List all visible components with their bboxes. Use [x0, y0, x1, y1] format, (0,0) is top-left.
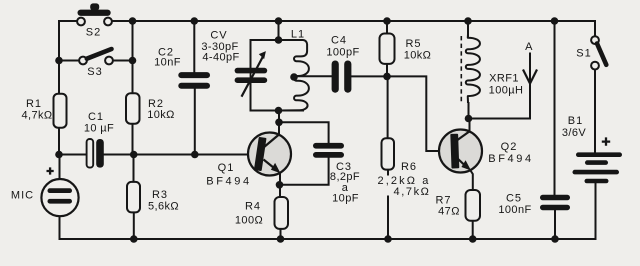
- antenna A: [523, 41, 537, 84]
- svg-text:C5: C5: [506, 192, 522, 204]
- node S3 left: [55, 57, 63, 65]
- svg-text:3/6V: 3/6V: [562, 127, 586, 139]
- capacitor C4: [326, 35, 359, 93]
- node XRF1 bottom: [465, 115, 473, 123]
- resistor R6: [378, 138, 431, 198]
- wire collector node to antenna: [469, 54, 531, 119]
- node emitter C3: [276, 181, 284, 189]
- wire right edge down to S1: [594, 21, 596, 36]
- node top rail / XRF1: [464, 17, 472, 25]
- node top rail / C5: [551, 17, 559, 25]
- svg-text:C1: C1: [88, 111, 104, 123]
- svg-text:S3: S3: [87, 66, 102, 78]
- wire top rail main segment: [112, 20, 595, 22]
- svg-text:A: A: [525, 41, 533, 53]
- inductor XRF1: [461, 34, 523, 104]
- wire top rail left segment: [59, 21, 77, 62]
- wire signal node to C1: [59, 154, 87, 156]
- wire R2/R3 node to Q1 base: [134, 154, 249, 156]
- svg-text:BF494: BF494: [206, 176, 251, 188]
- switch S3: [79, 49, 113, 78]
- svg-text:S2: S2: [86, 27, 101, 39]
- wire C1 to R2/R3 node: [104, 154, 134, 156]
- transistor Q2: [439, 130, 534, 173]
- wire XRF1 top from rail: [467, 21, 469, 36]
- svg-text:Q2: Q2: [501, 141, 518, 153]
- node top rail / C2: [191, 17, 199, 25]
- wire R2 bottom to node: [132, 124, 134, 155]
- microphone MIC: [11, 167, 79, 216]
- wire R4 bottom to rail: [280, 229, 282, 239]
- wire R5 bottom to node: [386, 64, 388, 77]
- wire C5 drop from rail: [554, 21, 556, 195]
- svg-text:B1: B1: [568, 115, 583, 127]
- wire battery minus to bottom rail: [555, 183, 596, 239]
- resistor R4: [235, 197, 288, 229]
- wire C5 bottom to rail: [554, 210, 556, 239]
- svg-text:100µH: 100µH: [489, 85, 524, 97]
- svg-text:47Ω: 47Ω: [438, 206, 460, 218]
- node top rail / tank: [275, 17, 283, 25]
- node signal left: [55, 151, 63, 159]
- svg-text:MIC: MIC: [11, 190, 34, 202]
- svg-text:10kΩ: 10kΩ: [147, 109, 175, 121]
- node tank top: [275, 36, 283, 44]
- wire S3 row right stub: [113, 60, 133, 62]
- wire mic bottom: [59, 216, 61, 239]
- node rail R3: [130, 235, 138, 243]
- wire CV bottom leg: [251, 83, 304, 110]
- inductor L1: [279, 29, 309, 111]
- wire C3 bottom to emitter node: [280, 158, 329, 185]
- svg-text:5,6kΩ: 5,6kΩ: [148, 201, 179, 213]
- capacitor C3: [313, 143, 360, 204]
- wire node to Q2 base: [387, 76, 439, 151]
- svg-text:BF494: BF494: [488, 153, 533, 165]
- svg-text:L1: L1: [291, 29, 305, 41]
- svg-text:R6: R6: [401, 161, 417, 173]
- node rail R7: [469, 235, 477, 243]
- node signal C2: [191, 151, 199, 159]
- svg-text:10pF: 10pF: [332, 192, 359, 204]
- svg-text:100pF: 100pF: [326, 47, 359, 59]
- wire left vertical to R1: [58, 61, 60, 94]
- wire node to R3 top: [133, 155, 135, 182]
- svg-text:CV: CV: [210, 30, 227, 42]
- resistor R7: [435, 190, 480, 221]
- resistor R1: [21, 94, 66, 128]
- svg-text:4,7kΩ: 4,7kΩ: [393, 186, 430, 198]
- wire C2 drop from rail: [193, 21, 195, 72]
- wire collector node to C3: [279, 122, 329, 143]
- node collector C3 branch: [275, 119, 283, 127]
- node tank bottom: [275, 107, 283, 115]
- switch S2 pushbutton: [77, 3, 112, 38]
- svg-text:XRF1: XRF1: [489, 73, 519, 85]
- node R5 bottom: [383, 73, 391, 81]
- wire R3 bottom to rail: [133, 212, 135, 239]
- node top rail / R2 line: [129, 17, 137, 25]
- transistor Q1: [206, 133, 291, 188]
- wire R2 top vertical from rail: [132, 21, 134, 93]
- capacitor C5: [498, 192, 570, 216]
- battery B1: [562, 115, 622, 183]
- wire R7 bottom to rail: [472, 221, 474, 239]
- wire tank stub from rail: [278, 21, 280, 40]
- wire S3 row left stub: [59, 60, 79, 62]
- wire C2 bottom to base line: [194, 89, 196, 155]
- wire Q2 collector: [469, 119, 471, 133]
- wire R5 top from rail: [386, 21, 388, 34]
- svg-text:100Ω: 100Ω: [235, 215, 263, 227]
- svg-text:100nF: 100nF: [498, 204, 531, 216]
- wire R1 bottom to signal node: [58, 128, 60, 155]
- wire R6 bottom to rail: [387, 170, 389, 175]
- node top rail / R5: [383, 17, 391, 25]
- wire XRF1 bottom to collector node: [468, 103, 470, 119]
- svg-text:10kΩ: 10kΩ: [404, 49, 432, 61]
- node rail R4: [277, 235, 285, 243]
- wire Q1 emitter to node: [279, 173, 281, 197]
- svg-text:S1: S1: [576, 48, 591, 60]
- svg-text:10 µF: 10 µF: [84, 123, 114, 135]
- node rail R6: [384, 235, 392, 243]
- node rail C5: [551, 235, 559, 243]
- wire S1 bottom to battery: [594, 69, 596, 152]
- node L1 tap: [290, 73, 298, 81]
- wire L1 tap to C4: [294, 75, 332, 77]
- svg-text:R1: R1: [26, 98, 42, 110]
- svg-text:Q1: Q1: [218, 162, 235, 174]
- svg-text:10nF: 10nF: [154, 56, 181, 68]
- variable capacitor CV: [201, 30, 267, 97]
- svg-text:C4: C4: [331, 35, 347, 47]
- wire mic top: [59, 155, 61, 180]
- switch S1: [576, 36, 606, 69]
- node signal R2R3: [130, 151, 138, 159]
- wire tank top horizontal: [251, 40, 303, 68]
- wire Q2 emitter to R7: [471, 171, 473, 191]
- capacitor C2: [154, 47, 210, 89]
- resistor R2: [126, 93, 175, 123]
- svg-text:R4: R4: [245, 201, 261, 213]
- svg-text:R5: R5: [405, 38, 421, 50]
- svg-text:R3: R3: [152, 189, 168, 201]
- svg-text:4-40pF: 4-40pF: [202, 52, 239, 64]
- wire bottom rail: [60, 238, 556, 240]
- capacitor C1 electrolytic: [84, 111, 114, 168]
- svg-text:4,7kΩ: 4,7kΩ: [21, 110, 52, 122]
- wire C4 to R5 node: [351, 75, 387, 77]
- wire node to R6 top: [387, 76, 389, 138]
- resistor R5: [380, 34, 432, 64]
- wire tank node to collector: [278, 111, 280, 135]
- node S3 right: [129, 57, 137, 65]
- resistor R3: [127, 182, 179, 213]
